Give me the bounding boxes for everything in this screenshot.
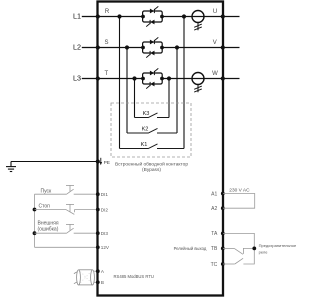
svg-text:(Bypass): (Bypass)	[142, 167, 161, 173]
svg-text:DI1: DI1	[101, 192, 109, 197]
wire thyristor block to V	[162, 47, 223, 49]
node K1 left tap	[117, 14, 121, 18]
node V terminal	[221, 45, 225, 49]
node R terminal	[96, 14, 100, 18]
node K1 right tap	[182, 14, 186, 18]
node K2 left tap	[125, 45, 129, 49]
svg-text:230 V AC: 230 V AC	[229, 187, 250, 193]
node S terminal	[96, 45, 100, 49]
wire S down to K2	[126, 48, 128, 134]
wire W output stub	[223, 78, 240, 80]
pushbutton SB2 Stop (NC)	[35, 204, 98, 214]
PE arrow marker	[100, 158, 103, 165]
wire T to thyristor block	[98, 78, 144, 80]
node A2 terminal	[221, 206, 225, 210]
svg-text:V: V	[213, 40, 217, 46]
wire 12V supply	[35, 246, 98, 248]
wire V output stub	[223, 47, 240, 49]
SCR VT2a top	[150, 40, 154, 45]
wire L1 input	[82, 16, 98, 18]
wire T down to K3	[134, 79, 136, 118]
node T terminal	[96, 76, 100, 80]
pushbutton SB3 External fault (NO)	[35, 224, 98, 233]
svg-text:Встроенный обводной контактор: Встроенный обводной контактор	[115, 161, 188, 168]
enclosure U1 soft starter outline	[98, 2, 224, 296]
current transformer TA2 on phase W	[192, 73, 204, 93]
node relay common	[252, 247, 256, 251]
node K3 left tap	[132, 76, 136, 80]
wire V down to K2	[176, 48, 178, 134]
ground symbol	[6, 162, 16, 172]
relay changeover contact TB (closed throw)	[223, 248, 254, 254]
svg-text:(ошибка): (ошибка)	[38, 227, 59, 233]
thyristor module VT1 (phase R, anti-parallel SCR pair)	[143, 11, 163, 22]
wire L2 input	[82, 47, 98, 49]
SCR VT3b bottom	[150, 82, 154, 87]
svg-text:K2: K2	[142, 127, 149, 133]
node bus-DI2	[33, 208, 37, 212]
svg-text:12V: 12V	[101, 245, 110, 250]
SCR VT2b bottom	[150, 51, 154, 56]
node DI3 terminal	[96, 231, 100, 235]
node K3 right tap	[167, 76, 171, 80]
node B terminal	[96, 280, 100, 284]
svg-text:L2: L2	[73, 42, 81, 51]
node TB terminal	[221, 247, 225, 251]
svg-text:A1: A1	[211, 191, 217, 197]
current transformer TA1 on phase U	[192, 11, 204, 31]
svg-text:Стоп: Стоп	[39, 204, 51, 210]
svg-text:TA: TA	[211, 231, 218, 237]
wire W down to K3	[168, 79, 170, 118]
bypass contactor dashed enclosure	[111, 103, 191, 157]
wire thyristor block to U	[162, 16, 223, 18]
wire U down to K1	[183, 17, 185, 149]
node W terminal	[221, 76, 225, 80]
wire R down to K1	[119, 17, 121, 149]
wire TA to relay pole	[223, 233, 254, 264]
twisted pair cable W1 (RS485)	[74, 270, 98, 285]
node DI2 terminal	[96, 208, 100, 212]
contact K1	[120, 144, 185, 149]
wire R to thyristor block	[98, 16, 144, 18]
svg-text:RS485 ModBUS RTU: RS485 ModBUS RTU	[114, 274, 154, 279]
node U terminal	[221, 14, 225, 18]
control bus wire (left vertical)	[34, 194, 36, 247]
230V AC supply loop	[223, 194, 255, 209]
node PE terminal	[96, 159, 100, 163]
svg-text:TC: TC	[211, 262, 218, 268]
svg-text:L1: L1	[73, 11, 81, 20]
svg-text:A2: A2	[211, 206, 217, 212]
thyristor module VT2 (phase S)	[143, 42, 163, 53]
svg-text:TB: TB	[211, 246, 218, 252]
svg-text:T: T	[104, 71, 108, 77]
SCR VT1a top	[150, 9, 154, 14]
thyristor module VT3 (phase T)	[143, 73, 163, 84]
svg-text:W: W	[212, 71, 218, 77]
node K2 right tap	[175, 45, 179, 49]
relay changeover contact TC (open throw)	[223, 258, 243, 264]
pushbutton SB1 Start (NO)	[35, 185, 98, 194]
svg-text:DI3: DI3	[101, 231, 109, 236]
svg-text:S: S	[104, 40, 108, 46]
wire L3 input	[82, 78, 98, 80]
SCR VT1b bottom	[150, 20, 154, 25]
node TC terminal	[221, 262, 225, 266]
wire U output stub	[223, 16, 240, 18]
svg-text:U: U	[213, 9, 217, 15]
svg-text:K3: K3	[143, 111, 150, 117]
node A1 terminal	[221, 192, 225, 196]
svg-text:PE: PE	[104, 160, 110, 166]
node A terminal	[96, 269, 100, 273]
wire thyristor block to W	[162, 78, 223, 80]
svg-text:реле: реле	[259, 250, 269, 255]
node bus-DI3	[33, 231, 37, 235]
SCR VT3a top	[150, 71, 154, 76]
contact K3	[135, 113, 170, 118]
svg-text:L3: L3	[73, 73, 81, 82]
node TA terminal	[221, 232, 225, 236]
svg-text:DI2: DI2	[101, 207, 109, 212]
svg-text:Предохранительное: Предохранительное	[259, 243, 297, 248]
wire S to thyristor block	[98, 47, 144, 49]
svg-text:Релейный выход: Релейный выход	[174, 246, 207, 251]
svg-text:R: R	[105, 9, 110, 15]
svg-text:K1: K1	[141, 142, 148, 148]
wire PE	[11, 161, 98, 163]
node 12V terminal	[96, 245, 100, 249]
contact K2	[127, 128, 177, 133]
node DI1 terminal	[96, 192, 100, 196]
svg-text:B: B	[101, 280, 104, 285]
